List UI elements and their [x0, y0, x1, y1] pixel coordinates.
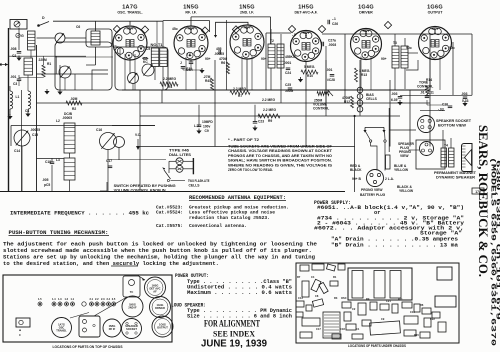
svg-text:SOCKET: SOCKET — [126, 327, 137, 331]
speaker socket bottom view — [418, 116, 435, 133]
svg-text:1.5: 1.5 — [38, 297, 42, 301]
chassis under view outline — [296, 263, 459, 343]
svg-text:INTERMEDIATE FREQUENCY . . . .: INTERMEDIATE FREQUENCY . . . . . . 455 k… — [10, 211, 149, 217]
svg-text:The adjustment for each push b: The adjustment for each push button is l… — [3, 242, 317, 248]
part under chassis 3 — [326, 264, 335, 271]
part under chassis 20 — [370, 302, 377, 310]
wire x281 — [280, 44, 282, 103]
svg-text:45o: 45o — [113, 45, 119, 49]
antenna trimmer C1 — [55, 33, 65, 43]
main left vertical wire — [36, 45, 38, 192]
wire top antenna bus — [53, 20, 163, 22]
svg-text:CELLS: CELLS — [366, 97, 378, 101]
svg-text:.008: .008 — [10, 47, 17, 51]
svg-text:R45: R45 — [205, 79, 211, 83]
svg-text:T4: T4 — [444, 144, 448, 148]
cap bus wire — [400, 94, 465, 96]
svg-text:CONTROL: CONTROL — [313, 107, 329, 111]
svg-text:2.2 MEG: 2.2 MEG — [262, 98, 275, 102]
part under chassis 21 — [380, 304, 389, 310]
svg-text:2.4: 2.4 — [107, 297, 111, 301]
part under chassis 27 — [422, 308, 431, 314]
bias cells — [357, 87, 363, 93]
bus line y146 — [140, 146, 355, 148]
gang capacitor box — [79, 316, 100, 337]
part under chassis 26 — [414, 304, 420, 312]
ground arrows osc — [44, 91, 49, 94]
svg-text:C26: C26 — [332, 22, 338, 26]
svg-text:OSC: OSC — [341, 296, 347, 300]
svg-text:RF. I.F.: RF. I.F. — [185, 11, 196, 15]
svg-text:R7: R7 — [238, 94, 242, 98]
svg-text:reduction than Catalog #5523.: reduction than Catalog #5523. — [189, 215, 270, 221]
big shield can rect — [348, 268, 412, 300]
svg-text:R6: R6 — [420, 303, 424, 307]
part under chassis 7 — [319, 282, 328, 293]
svg-text:C18: C18 — [340, 327, 345, 331]
svg-text:R14: R14 — [426, 78, 432, 82]
part under chassis 24 — [402, 302, 412, 308]
part under chassis 22 — [370, 321, 401, 335]
svg-text:DYNAMIC SPEAKER: DYNAMIC SPEAKER — [436, 176, 476, 180]
svg-text:.003: .003 — [391, 92, 398, 96]
wires to battery plug — [371, 143, 377, 171]
svg-text:R9: R9 — [268, 119, 272, 123]
TC box — [123, 276, 140, 297]
svg-text:Cat.#5575:: Cat.#5575: — [156, 223, 183, 229]
osc coil L2 — [64, 123, 75, 153]
svg-text:KC: KC — [143, 60, 148, 64]
svg-text:SEARS, ROEBUCK & CO.: SEARS, ROEBUCK & CO. — [476, 125, 491, 277]
svg-text:TWO FLASH-LITE: TWO FLASH-LITE — [188, 179, 210, 183]
svg-text:CHASSIS. VOLTAGE READINGS SHO: CHASSIS. VOLTAGE READINGS SHOWN AT SOCKE… — [228, 149, 332, 153]
arrow to 1H5G — [138, 276, 145, 281]
dial lamp wires — [169, 160, 176, 162]
svg-text:90+: 90+ — [205, 57, 211, 61]
tube V2 — [174, 26, 208, 60]
svg-text:2 L.A.: 2 L.A. — [385, 177, 394, 181]
svg-text:Less effective pickup and nois: Less effective pickup and noise — [189, 210, 275, 216]
antenna coil A — [28, 31, 36, 50]
svg-text:1.3: 1.3 — [58, 297, 62, 301]
svg-text:R6: R6 — [221, 61, 225, 65]
chassis top view outline — [3, 275, 172, 342]
svg-text:J: J — [180, 61, 182, 65]
part under chassis 23 — [392, 304, 398, 313]
svg-text:PRONG VIEW: PRONG VIEW — [361, 188, 383, 192]
part under chassis 6 — [311, 279, 321, 292]
svg-text:LOCATIONS OF PARTS UNDER CHASS: LOCATIONS OF PARTS UNDER CHASSIS — [348, 344, 407, 348]
svg-text:NO-T1: NO-T1 — [151, 43, 163, 47]
svg-text:C4: C4 — [311, 275, 315, 279]
svg-text:SIGNAL; HAVE SWITCH IN BROADCA: SIGNAL; HAVE SWITCH IN BROADCAST POSITIO… — [228, 159, 332, 163]
svg-text:DIAL LITES: DIAL LITES — [169, 153, 192, 157]
svg-text:R7: R7 — [297, 275, 301, 279]
svg-text:.005: .005 — [42, 178, 49, 182]
svg-text:TYPE #46: TYPE #46 — [169, 149, 189, 153]
svg-text:ZERO OR TOO LOW TO READ.: ZERO OR TOO LOW TO READ. — [228, 168, 273, 172]
svg-text:C9: C9 — [205, 129, 209, 133]
cap 10MFD C9 — [198, 105, 200, 125]
svg-text:DRIVER: DRIVER — [155, 306, 165, 310]
wire osc top — [11, 125, 155, 127]
svg-text:SEE INDEX: SEE INDEX — [213, 329, 256, 339]
svg-text:.001: .001 — [10, 75, 17, 79]
tube3 inner loop — [216, 22, 249, 36]
svg-text:pC5: pC5 — [44, 183, 50, 187]
svg-text:C: C — [19, 333, 21, 337]
svg-text:TRANSL: TRANSL — [56, 329, 67, 333]
part under chassis 4 — [338, 264, 345, 270]
wire x326 — [325, 46, 327, 116]
svg-text:R13: R13 — [361, 73, 367, 77]
svg-text:J: J — [258, 115, 260, 119]
svg-text:BATTERY PLUG: BATTERY PLUG — [360, 193, 386, 197]
svg-text:C8: C8 — [315, 294, 319, 298]
part under chassis 28 — [424, 318, 431, 327]
oscillator padder C15 — [14, 130, 30, 146]
part under chassis 2 — [312, 264, 324, 270]
antenna box — [10, 20, 27, 30]
part under chassis 30 — [404, 330, 416, 336]
tube 1H5G top view — [145, 277, 166, 298]
svg-text:YELLOW: YELLOW — [394, 168, 409, 172]
svg-text:C27a: C27a — [328, 39, 336, 43]
svg-text:PERMANENT MAGNET: PERMANENT MAGNET — [434, 171, 476, 175]
svg-text:JUNE 19, 1939: JUNE 19, 1939 — [201, 339, 267, 350]
svg-text:C1: C1 — [356, 327, 360, 331]
svg-text:C15: C15 — [32, 133, 38, 137]
switch note corner wire — [106, 182, 108, 191]
part under chassis 5 — [302, 281, 309, 297]
svg-text:R15: R15 — [414, 333, 419, 337]
part under chassis 29 — [432, 312, 440, 318]
T1 wires — [154, 67, 156, 81]
part under chassis 33 — [438, 322, 446, 332]
tube 1A7G top view — [52, 318, 72, 338]
svg-text:YELLOW: YELLOW — [399, 189, 414, 193]
svg-text:C4: C4 — [25, 109, 29, 113]
svg-text:2.3: 2.3 — [101, 297, 105, 301]
ground sym small — [16, 33, 20, 37]
svg-text:BLACK: BLACK — [350, 168, 362, 172]
tube2 grid loop wire — [163, 21, 209, 32]
svg-text:slotted screwhead made access: slotted screwhead made accessible when t… — [3, 248, 312, 254]
svg-text:KEY: KEY — [363, 29, 371, 33]
svg-text:C22: C22 — [430, 317, 435, 321]
grid cap diamonds — [113, 25, 120, 32]
svg-text:KEY: KEY — [127, 27, 135, 31]
svg-text:R11: R11 — [398, 297, 403, 301]
svg-text:"B" Drain . . . . . . . . . .: "B" Drain . . . . . . . . . . 13 ma — [331, 243, 459, 249]
svg-text:90o: 90o — [406, 46, 412, 50]
svg-text:R3: R3 — [334, 296, 338, 300]
osc coil L3 — [64, 158, 75, 180]
part under chassis 8 — [330, 281, 338, 286]
tube V3 — [230, 25, 264, 59]
part under chassis 16 — [344, 312, 351, 321]
svg-text:T2: T2 — [270, 39, 274, 43]
svg-text:.0003: .0003 — [328, 43, 336, 47]
svg-text:#6051. ..A-B block(1.4 v,"A",: #6051. ..A-B block(1.4 v,"A", 90 v, "B") — [317, 205, 464, 211]
output transformer T4 — [441, 148, 447, 167]
svg-text:1.1: 1.1 — [71, 297, 75, 301]
svg-text:TC: TC — [130, 290, 134, 294]
svg-text:VIEW: VIEW — [400, 154, 409, 158]
svg-text:-.1: -.1 — [332, 17, 336, 21]
svg-text:C24: C24 — [285, 71, 291, 75]
part under chassis 9 — [296, 301, 304, 307]
svg-text:C16: C16 — [96, 128, 102, 132]
volume control 250M — [317, 92, 329, 96]
part under chassis 14 — [323, 312, 340, 338]
part under chassis 18 — [358, 303, 366, 315]
svg-text:SPEAKER SOCKET: SPEAKER SOCKET — [436, 119, 471, 123]
svg-text:2ND. I.F.: 2ND. I.F. — [240, 11, 254, 15]
speaker plug prong view — [416, 140, 445, 169]
speaker socket top view — [122, 319, 142, 339]
svg-text:OUTPUT: OUTPUT — [157, 326, 168, 330]
svg-text:CELLS: CELLS — [189, 184, 201, 188]
svg-text:C9: C9 — [381, 317, 385, 321]
svg-text:KEY: KEY — [244, 26, 252, 30]
tube pin drop wires — [124, 54, 126, 90]
dial switch arm — [164, 170, 171, 179]
svg-text:C6: C6 — [76, 25, 80, 29]
svg-text:PRONGS ARE TO CHASSIS, AND ARE: PRONGS ARE TO CHASSIS, AND ARE TAKEN WIT… — [228, 154, 333, 158]
T3 to tube6 wire — [408, 52, 418, 54]
driver transformer T3 — [392, 46, 399, 68]
svg-text:10MFD: 10MFD — [202, 120, 213, 124]
svg-text:#C28: #C28 — [327, 78, 335, 82]
svg-text:R12: R12 — [344, 100, 350, 104]
osc trimmer box 1 — [55, 42, 112, 90]
svg-text:C23: C23 — [258, 120, 264, 124]
svg-text:C2: C2 — [352, 307, 356, 311]
svg-text:2.1: 2.1 — [90, 297, 94, 301]
part under chassis 12 — [296, 312, 303, 317]
wires osc section — [95, 47, 97, 65]
svg-text:2.2 MEG: 2.2 MEG — [263, 108, 276, 112]
svg-text:LOCATIONS OF PARTS ON TOP OF C: LOCATIONS OF PARTS ON TOP OF CHASSIS — [53, 345, 124, 349]
svg-text:100v: 100v — [203, 125, 211, 129]
coil L1 left loops — [10, 91, 13, 95]
trimmer row — [38, 302, 42, 306]
tube 1N5G 2nd IF top view — [122, 296, 143, 317]
svg-text:90+ B: 90+ B — [352, 177, 362, 181]
part under chassis 1 — [300, 265, 309, 271]
battery plug prong view — [367, 170, 384, 187]
osc trimmer box 2 — [115, 47, 168, 90]
vertical wires grid — [90, 90, 140, 140]
tube 1N5G rf top view — [103, 319, 121, 337]
bus line y103 — [37, 102, 431, 104]
svg-text:R1: R1 — [333, 275, 337, 279]
tube V1 — [113, 26, 147, 60]
left wires — [9, 55, 87, 57]
svg-text:C20: C20 — [186, 67, 192, 71]
svg-text:-.5: -.5 — [292, 33, 296, 37]
svg-text:VOLUME CONTROL KNOB IN: VOLUME CONTROL KNOB IN — [114, 189, 167, 193]
part under chassis 15 — [342, 302, 351, 308]
svg-text:C14: C14 — [14, 149, 20, 153]
svg-text:R2: R2 — [72, 107, 76, 111]
tube V5 — [351, 29, 382, 60]
switch arms battery — [365, 126, 384, 128]
svg-text:SWITCH OPERATED BY PUSHING: SWITCH OPERATED BY PUSHING — [114, 184, 176, 188]
wire y159 dial — [108, 159, 166, 161]
svg-text:WHERE NO READING IS GIVEN, THE: WHERE NO READING IS GIVEN, THE VOLTAGE I… — [228, 163, 333, 167]
transformer hatch lines — [324, 314, 339, 316]
svg-text:C10: C10 — [442, 103, 448, 107]
part under chassis 11 — [312, 299, 323, 307]
part under chassis 25 — [404, 316, 418, 324]
bus junction wires — [354, 116, 356, 192]
speaker frame — [462, 144, 473, 172]
svg-text:90o: 90o — [449, 46, 455, 50]
code box 179 — [472, 188, 484, 194]
svg-text:.01: .01 — [420, 91, 425, 95]
svg-text:.00005: .00005 — [62, 116, 72, 120]
power box left — [16, 318, 30, 327]
svg-text:BOTTOM VIEW: BOTTOM VIEW — [438, 124, 467, 128]
IF transformer T2 — [268, 44, 275, 68]
svg-text:2.2: 2.2 — [95, 297, 99, 301]
svg-text:2.5: 2.5 — [112, 297, 116, 301]
svg-text:L2: L2 — [56, 119, 60, 123]
svg-text:RF IF: RF IF — [109, 327, 116, 331]
svg-text:Stations are set up by unlocki: Stations are set up by unlocking the mec… — [3, 255, 315, 261]
svg-text:Conventional antenna.: Conventional antenna. — [189, 223, 247, 229]
bus line y90 — [122, 89, 430, 91]
svg-text:C21: C21 — [386, 299, 391, 303]
svg-text:C11: C11 — [428, 91, 434, 95]
IF can right — [435, 296, 456, 307]
part under chassis 13 — [302, 318, 320, 326]
svg-text:DET-AVC-A.F.: DET-AVC-A.F. — [294, 11, 317, 15]
tube 1G6G top view — [152, 316, 173, 337]
svg-text:90+: 90+ — [381, 57, 387, 61]
svg-text:V.C.: V.C. — [135, 133, 141, 137]
tube3 top wire — [191, 16, 271, 18]
part under chassis 34 — [300, 332, 312, 338]
tube 1G4G top view — [150, 297, 171, 318]
svg-text:C16: C16 — [410, 310, 415, 314]
part under chassis 32 — [420, 332, 430, 338]
svg-text:OSC. TRANSL.: OSC. TRANSL. — [117, 11, 142, 15]
part under chassis 35 — [332, 334, 341, 339]
svg-text:R10: R10 — [307, 74, 313, 78]
svg-text:KEY: KEY — [188, 27, 196, 31]
svg-text:5 MEG.: 5 MEG. — [304, 65, 315, 69]
tube V4 — [291, 31, 322, 62]
svg-text:TUBE SOCKETS ARE VIEWED FROM U: TUBE SOCKETS ARE VIEWED FROM UNDER SIDE … — [228, 145, 332, 149]
svg-text:C25: C25 — [285, 83, 291, 87]
part under chassis 10 — [306, 305, 312, 311]
oscillator padder C16 — [100, 133, 117, 150]
wires lower left — [21, 146, 23, 192]
svg-text:Maximum . . . . . . . 0.6 watt: Maximum . . . . . . . 0.6 watts — [187, 290, 292, 296]
svg-text:* - PART OF T2: * - PART OF T2 — [228, 138, 259, 142]
ground arrow near R10 — [298, 79, 303, 82]
svg-text:R9: R9 — [366, 297, 370, 301]
svg-text:⊕: ⊕ — [19, 329, 22, 332]
osc internal wires — [55, 56, 113, 58]
oscillator coil L2 box — [86, 29, 112, 47]
dial drive diagonal — [94, 297, 127, 316]
part under chassis 31 — [352, 334, 363, 339]
svg-text:455KC: 455KC — [285, 55, 296, 59]
svg-text:C13: C13 — [298, 296, 303, 300]
svg-text:DRIVER: DRIVER — [359, 11, 373, 15]
svg-text:D: D — [42, 16, 45, 20]
svg-text:45o: 45o — [172, 27, 178, 31]
svg-text:2ND IF: 2ND IF — [128, 306, 137, 310]
part under chassis 17 — [346, 324, 356, 330]
svg-text:C17: C17 — [316, 327, 321, 331]
antenna lead wire thick — [8, 28, 10, 192]
svg-text:6.39: 6.39 — [391, 98, 398, 102]
svg-text:AF: AF — [153, 290, 157, 294]
antenna coil B — [24, 58, 33, 75]
svg-text:.001: .001 — [326, 68, 333, 72]
svg-text:C3: C3 — [13, 82, 17, 86]
battery resistor — [386, 155, 391, 169]
IF transformer T1 — [151, 48, 159, 67]
svg-text:.00025: .00025 — [30, 128, 40, 132]
schematic bottom line — [0, 191, 345, 193]
svg-text:OUTPUT: OUTPUT — [428, 11, 444, 15]
top long wire right section — [322, 33, 472, 35]
svg-text:.0001: .0001 — [283, 61, 291, 65]
part under chassis 19 — [362, 320, 371, 326]
svg-text:KEY: KEY — [432, 27, 440, 31]
svg-text:Cat.#5524:: Cat.#5524: — [156, 210, 183, 216]
bus line y115 — [140, 115, 400, 117]
svg-text:L1: L1 — [16, 95, 20, 99]
svg-text:R1: R1 — [47, 62, 51, 66]
svg-text:1.4: 1.4 — [52, 297, 56, 301]
svg-text:220M: 220M — [39, 58, 48, 62]
svg-text:KEY: KEY — [303, 31, 311, 35]
svg-text:1.2: 1.2 — [65, 297, 69, 301]
svg-text:2.2 MEG: 2.2 MEG — [163, 77, 176, 81]
tube V6 — [419, 27, 452, 60]
left edge arrow — [2, 64, 9, 66]
svg-text:G: G — [21, 34, 24, 38]
